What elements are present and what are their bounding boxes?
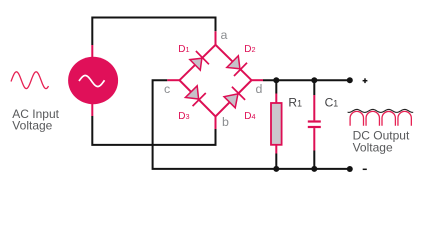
junction at R1 bottom: [273, 166, 279, 172]
svg-text:d: d: [256, 82, 263, 96]
svg-text:D4: D4: [244, 111, 255, 122]
junction at R1 top: [273, 77, 279, 83]
label plus: [363, 78, 368, 83]
svg-text:R1: R1: [288, 96, 302, 110]
capacitor C1: [308, 80, 321, 169]
plus output terminal: [347, 77, 353, 83]
wire: node d to plus terminal: [252, 79, 350, 81]
svg-text:Voltage: Voltage: [353, 141, 393, 155]
label AC Input Voltage: [12, 107, 59, 133]
junction at C1 top: [311, 77, 317, 83]
label minus: [363, 168, 367, 170]
label DC Output Voltage: [353, 129, 410, 155]
AC input waveform icon: [11, 72, 49, 89]
wire: AC source top to node a: [92, 18, 215, 59]
wire: AC source bottom to node b: [92, 104, 215, 145]
minus output terminal: [347, 166, 353, 172]
diode D2: [226, 55, 247, 76]
svg-text:C1: C1: [325, 96, 339, 110]
junction at C1 bottom: [311, 166, 317, 172]
svg-text:D1: D1: [178, 44, 189, 55]
diode D4: [223, 87, 245, 109]
DC ripple average line: [348, 109, 414, 112]
svg-text:Voltage: Voltage: [12, 119, 52, 133]
diode D3: [185, 85, 206, 106]
diode D1: [189, 51, 209, 71]
svg-text:b: b: [222, 115, 229, 129]
svg-text:D2: D2: [244, 44, 255, 55]
svg-text:D3: D3: [178, 111, 189, 122]
AC source: [68, 57, 118, 104]
wire: node c to bottom rail: [153, 80, 350, 169]
resistor R1: [271, 80, 282, 169]
svg-text:c: c: [164, 82, 170, 96]
DC output ripple waveform icon: [350, 111, 411, 125]
svg-text:a: a: [221, 28, 228, 42]
bridge diamond wires: [180, 45, 252, 117]
